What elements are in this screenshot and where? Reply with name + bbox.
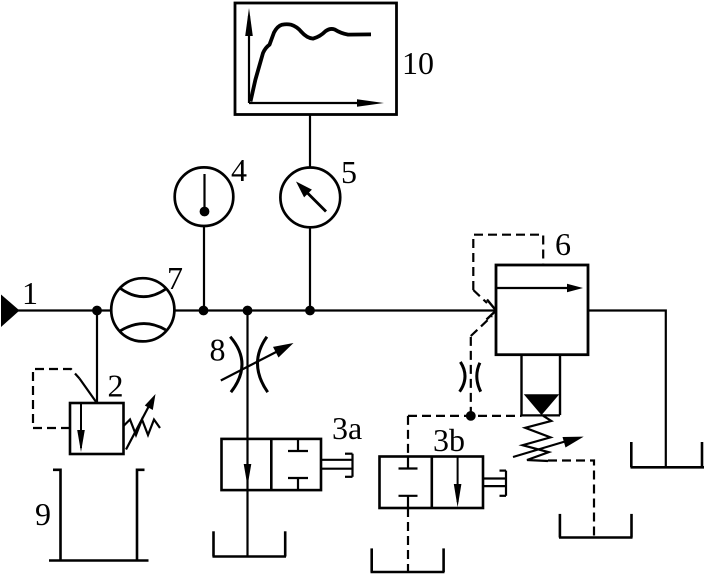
wire gauge 4 to main line	[203, 226, 205, 311]
valve 6 seat triangle	[524, 394, 560, 415]
svg-text:9: 9	[35, 496, 51, 532]
svg-text:8: 8	[210, 332, 226, 368]
pilot arrowhead at valve 6 left port	[487, 300, 496, 320]
pilot node (dashed net junction)	[466, 411, 476, 421]
valve 3b right position down arrow	[454, 456, 462, 507]
wire main line to valve 2	[96, 311, 98, 404]
valve 2 pilot diagonal	[80, 379, 97, 403]
box 10 (response curve display)	[235, 3, 397, 115]
relief valve 2 body	[70, 403, 124, 454]
dashed pilot line up through orifice	[470, 336, 472, 416]
pilot drain tank	[559, 514, 633, 538]
svg-text:2: 2	[108, 368, 124, 404]
dashed drain 3b to tank	[407, 508, 409, 571]
supply arrow (input)	[1, 295, 20, 328]
dashed diagonal lower to valve 6	[471, 316, 492, 336]
x-axis of box 10	[249, 99, 384, 107]
valve 3b left position blocked ports	[399, 456, 418, 508]
valve 3a actuator	[321, 454, 353, 477]
valve 6 neck bottom edge	[522, 414, 561, 416]
valve 3a body	[222, 439, 322, 490]
valve 6 internal arrow	[497, 284, 584, 292]
wire node to throttle 8 and valve 3a and tank	[246, 311, 248, 557]
dashed pilot rectangle above valve 6	[473, 235, 543, 290]
main wire left segment	[18, 309, 111, 311]
step-response curve in box 10	[251, 24, 372, 101]
y-axis of box 10	[245, 8, 253, 103]
svg-text:5: 5	[341, 154, 357, 190]
valve 2 pilot dashed line	[33, 369, 80, 428]
valve 6 spring adjust arrow	[513, 437, 584, 457]
dashed pilot line horizontal	[408, 415, 522, 417]
valve 2 spring	[124, 420, 161, 436]
valve 3b actuator	[484, 471, 506, 496]
tank under 3a	[213, 531, 287, 556]
dashed diagonal upper from pilot rectangle	[473, 290, 487, 303]
valve 3b body	[380, 457, 484, 509]
valve 6 body	[496, 265, 588, 355]
main wire right segment	[174, 309, 496, 311]
valve 6 neck	[522, 355, 561, 415]
outlet tank	[631, 442, 704, 467]
node at x=203.5	[199, 306, 209, 316]
pilot orifice arcs	[460, 362, 481, 392]
svg-text:3a: 3a	[332, 410, 362, 446]
tank 9	[49, 470, 149, 561]
svg-text:7: 7	[167, 260, 183, 296]
valve 2 internal down arrow	[77, 403, 85, 452]
dashed spring drain line	[548, 461, 594, 537]
throttle valve 8 arcs	[230, 337, 268, 393]
wire valve 6 outlet	[588, 311, 666, 468]
throttle valve 8 adjust arrow	[221, 343, 294, 381]
gauge 5 (pressure gauge)	[280, 168, 340, 228]
flow meter 7	[111, 278, 174, 341]
node at x=247.5	[243, 306, 253, 316]
tank under 3b	[371, 548, 445, 572]
valve 2 adjust arrow	[126, 394, 156, 450]
valve 6 spring	[523, 416, 552, 461]
svg-text:1: 1	[22, 275, 38, 311]
gauge 4 (thermometer)	[175, 167, 234, 226]
svg-text:10: 10	[402, 45, 434, 81]
wire box10 to gauge 5	[309, 115, 311, 168]
dashed pilot line down to 3b	[407, 416, 409, 456]
node at x=310	[305, 306, 315, 316]
svg-text:4: 4	[231, 152, 247, 188]
valve 3a right position blocked ports	[288, 439, 308, 490]
svg-text:6: 6	[555, 226, 571, 262]
svg-text:3b: 3b	[433, 422, 465, 458]
valve 3a left position down arrow	[244, 464, 252, 486]
node at x=97	[92, 306, 102, 316]
wire gauge 5 to main line	[309, 227, 311, 310]
